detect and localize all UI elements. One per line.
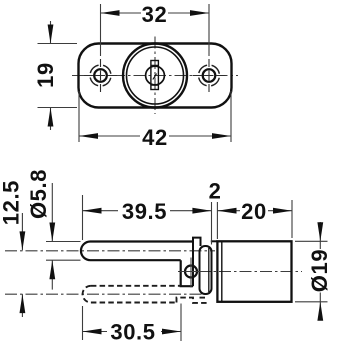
svg-text:Ø5.8: Ø5.8 [26, 169, 51, 219]
svg-text:42: 42 [142, 125, 168, 150]
svg-text:Ø19: Ø19 [307, 249, 332, 292]
svg-text:20: 20 [241, 199, 267, 224]
svg-text:30.5: 30.5 [110, 319, 155, 344]
svg-text:2: 2 [209, 179, 222, 204]
svg-text:32: 32 [142, 2, 168, 27]
svg-text:12.5: 12.5 [0, 180, 24, 225]
svg-text:39.5: 39.5 [122, 199, 167, 224]
svg-text:19: 19 [33, 62, 58, 88]
